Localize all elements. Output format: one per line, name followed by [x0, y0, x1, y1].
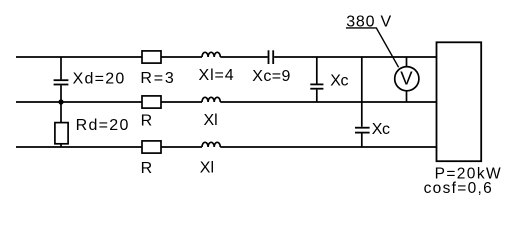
- svg-text:R: R: [141, 160, 153, 177]
- node junction dot: [58, 99, 63, 104]
- capacitor Xc shunt 1: [310, 84, 323, 88]
- load box: [437, 42, 482, 161]
- resistor R (phase B): [142, 96, 161, 108]
- resistor Rd=20: [55, 123, 68, 144]
- svg-text:Xl=4: Xl=4: [199, 67, 235, 84]
- wire Xd top: [60, 57, 62, 79]
- wire shunt Xc1 top: [316, 57, 318, 84]
- wire phase A segment left: [16, 56, 142, 58]
- label Xd=20: [73, 70, 126, 87]
- svg-text:V: V: [400, 68, 413, 89]
- wire phase C between R and Xl: [161, 146, 202, 148]
- label P=20kW: [435, 165, 502, 182]
- wire shunt Xc2 bottom: [361, 134, 363, 148]
- svg-text:Rd=20: Rd=20: [76, 117, 130, 134]
- label cosf=0,6: [424, 180, 493, 197]
- label R (phase B): [141, 113, 153, 130]
- wire phase A right segment: [274, 56, 436, 58]
- capacitor Xc=9: [269, 50, 274, 64]
- capacitor Xc shunt 2: [355, 128, 370, 133]
- svg-text:R: R: [141, 113, 153, 130]
- inductor Xl (phase B): [202, 97, 220, 102]
- svg-text:R=3: R=3: [140, 70, 175, 87]
- label Rd=20: [76, 117, 130, 134]
- label Xc shunt 2: [372, 121, 390, 138]
- wire phase C: [16, 146, 142, 148]
- svg-text:Xc: Xc: [372, 121, 390, 138]
- wire voltmeter top: [406, 57, 408, 67]
- wire voltmeter bottom: [406, 91, 408, 102]
- wire phase A between R and Xl: [161, 56, 202, 58]
- capacitor Xd=20: [54, 80, 69, 84]
- wire Rd top: [60, 102, 62, 123]
- label Xc=9: [252, 68, 291, 85]
- leader line from 380 V to voltmeter: [346, 28, 399, 67]
- svg-text:Xc: Xc: [330, 73, 348, 90]
- label Xl (phase C): [200, 160, 214, 177]
- resistor R=3: [142, 51, 161, 63]
- wire shunt Xc2 top: [361, 57, 363, 127]
- wire shunt Xc1 bottom: [316, 90, 318, 102]
- wire phase B: [16, 101, 142, 103]
- svg-text:Xl: Xl: [200, 160, 214, 177]
- svg-text:cosf=0,6: cosf=0,6: [424, 180, 493, 197]
- resistor R (phase C): [142, 141, 161, 153]
- label Xl (phase B): [204, 112, 218, 129]
- label R=3: [140, 70, 175, 87]
- inductor Xl (phase C): [202, 142, 220, 147]
- inductor Xl=4: [202, 52, 220, 57]
- label Xc shunt 1: [330, 73, 348, 90]
- wire Rd bottom: [60, 144, 62, 147]
- svg-text:Xl: Xl: [204, 112, 218, 129]
- svg-text:Xd=20: Xd=20: [73, 70, 126, 87]
- voltmeter V: [395, 67, 419, 91]
- label R (phase C): [141, 160, 153, 177]
- wire phase B between R and Xl: [161, 101, 202, 103]
- label V in voltmeter: [400, 68, 413, 89]
- label Xl=4: [199, 67, 235, 84]
- label 380 V: [346, 13, 392, 30]
- wire Xd bottom: [60, 85, 62, 102]
- wire phase B right segment: [220, 101, 436, 103]
- svg-text:Xc=9: Xc=9: [252, 68, 291, 85]
- wire phase C right segment: [220, 146, 436, 148]
- wire phase A between Xl and Xc: [220, 56, 267, 58]
